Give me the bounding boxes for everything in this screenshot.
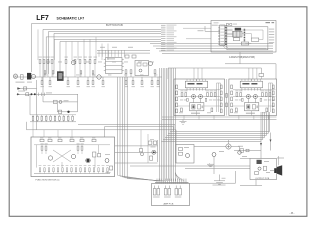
svg-text:A MAIN PCB(MAIN PCB): A MAIN PCB(MAIN PCB) (229, 56, 255, 59)
svg-text:- 8 -: - 8 - (290, 211, 295, 215)
svg-text:SCHEMATIC LF7: SCHEMATIC LF7 (57, 17, 85, 21)
svg-text:BUTTON PCB: BUTTON PCB (106, 23, 123, 27)
svg-text:LF7: LF7 (36, 15, 49, 22)
svg-text:AMP PCB: AMP PCB (164, 203, 174, 206)
svg-text:OUTPUT PCB: OUTPUT PCB (255, 178, 270, 180)
svg-text:FUNCTION SWITCH (1): FUNCTION SWITCH (1) (36, 179, 60, 181)
